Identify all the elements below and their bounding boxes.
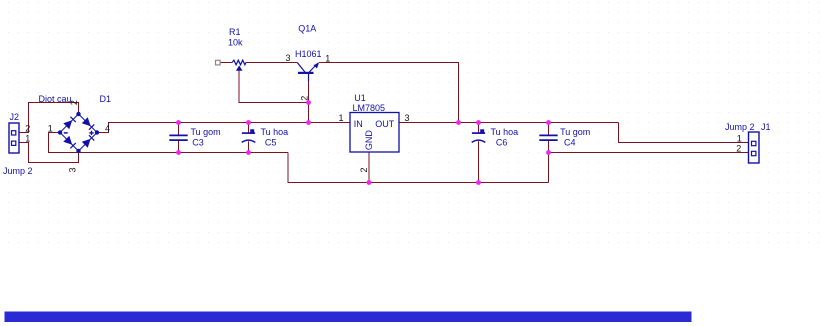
wire R1 terminal stub [220, 62, 232, 64]
wire Q1 collector down to IN rail [308, 81, 310, 123]
bridge vertex node bottom [76, 149, 80, 153]
svg-text:3: 3 [405, 113, 410, 123]
connector J1 [749, 132, 760, 163]
wire ground rail step down [288, 153, 549, 183]
svg-text:Tu gom: Tu gom [560, 127, 590, 137]
wire J2 pin2 to bridge top (net AC1) [19, 103, 79, 133]
svg-text:1: 1 [25, 133, 30, 143]
svg-text:2: 2 [736, 144, 741, 154]
svg-text:Tu gom: Tu gom [191, 127, 221, 137]
svg-text:Tu hoa: Tu hoa [491, 127, 519, 137]
junction C5 top [246, 120, 251, 125]
junction U1 GND / ground rail [367, 180, 372, 185]
svg-text:2: 2 [300, 96, 310, 101]
wire R1 wiper down and right to collector net [239, 70, 309, 103]
wire R1 to Q1 base [246, 62, 297, 64]
bridge diode lower-right [82, 135, 95, 148]
junction C5 bottom [246, 150, 251, 155]
capacitor C4 (Tu gom) plates [539, 135, 557, 140]
bridge plus mark [89, 131, 93, 135]
wire U1 OUT rail [399, 122, 619, 124]
wire C6 bottom stub to ground rail [478, 141, 480, 182]
capacitor C6 (Tu hoa) polarized plates [472, 129, 486, 142]
wire C3 bottom stub [178, 141, 180, 153]
svg-text:Jump 2: Jump 2 [3, 166, 33, 176]
junction C3 bottom [176, 150, 181, 155]
svg-text:OUT: OUT [375, 119, 395, 129]
svg-text:C5: C5 [265, 137, 277, 147]
svg-text:1: 1 [48, 123, 53, 133]
svg-text:LM7805: LM7805 [353, 103, 386, 113]
bridge diode lower-left [63, 136, 76, 149]
svg-text:GND: GND [364, 130, 374, 151]
bridge vertex node right [95, 130, 99, 134]
wire Q1 emitter to right drop [319, 63, 459, 123]
wire C5 top stub [248, 123, 250, 133]
wire bridge pin4 (DC+) to U1 IN rail [97, 123, 350, 133]
wire ground rail up to C4 bottom node [548, 153, 550, 183]
svg-text:3: 3 [286, 53, 291, 63]
svg-text:Jump 2: Jump 2 [725, 122, 755, 132]
svg-text:1: 1 [325, 54, 330, 64]
wire C4 top stub [548, 123, 550, 135]
capacitor C3 (Tu gom) plates [169, 135, 187, 140]
transistor Q1A H1061 symbol [297, 63, 319, 82]
svg-text:2: 2 [25, 123, 30, 133]
svg-text:C4: C4 [564, 137, 576, 147]
svg-text:IN: IN [354, 119, 363, 129]
resistor R1 terminal port [216, 60, 221, 65]
bridge minus mark [64, 132, 68, 134]
bottom blue progress bar [5, 312, 692, 323]
wire U1 GND pin2 to ground rail [368, 152, 370, 183]
junction C4 top [546, 120, 551, 125]
regulator U1 LM7805 box [350, 113, 399, 153]
junction C6 bottom / ground rail [476, 180, 481, 185]
svg-text:1: 1 [339, 113, 344, 123]
wire C3 top stub [178, 123, 180, 135]
svg-text:4: 4 [105, 123, 110, 133]
connector J2 [9, 123, 19, 153]
bridge vertex node left [58, 130, 62, 134]
svg-text:2: 2 [69, 100, 79, 105]
svg-text:U1: U1 [354, 93, 366, 103]
svg-text:D1: D1 [100, 94, 112, 104]
wire OUT rail step down to J1 pin1 [619, 123, 749, 143]
svg-text:3: 3 [67, 167, 77, 172]
svg-text:J1: J1 [761, 122, 771, 132]
junction R1 wiper / collector net [306, 100, 311, 105]
junction C6 top [476, 120, 481, 125]
svg-text:C3: C3 [192, 137, 204, 147]
bridge vertex node top [76, 112, 80, 116]
junction C4 bottom node [546, 150, 551, 155]
svg-text:J2: J2 [10, 112, 20, 122]
wire bridge pin1 (DC-) down-around to bottom rail [49, 133, 289, 153]
svg-text:1: 1 [737, 133, 742, 143]
wire J2 pin1 to bridge bottom (net AC2) [19, 143, 79, 163]
junction Q1 collector / IN rail [306, 120, 311, 125]
diode bridge D1 (Diot cau) body [60, 114, 97, 151]
wire C4 bottom node to J1 pin2 [549, 152, 749, 154]
svg-text:C6: C6 [496, 137, 508, 147]
bridge diode upper-left [63, 117, 76, 130]
wire C4 bottom stub [548, 141, 550, 153]
svg-text:H1061: H1061 [295, 49, 322, 59]
capacitor C5 (Tu hoa) polarized plates [242, 129, 256, 142]
svg-text:Diot cau: Diot cau [39, 94, 72, 104]
svg-text:Tu hoa: Tu hoa [261, 127, 289, 137]
junction emitter / OUT rail [456, 120, 461, 125]
svg-text:10k: 10k [228, 37, 243, 47]
wire C6 top stub [478, 123, 480, 133]
bridge diode upper-right [82, 117, 95, 130]
junction C3 top [176, 120, 181, 125]
svg-text:2: 2 [359, 167, 369, 172]
svg-text:Q1A: Q1A [298, 23, 316, 33]
resistor R1 wiper arrow [236, 65, 243, 70]
wire C5 bottom stub [248, 141, 250, 152]
resistor R1 zigzag [232, 60, 246, 65]
svg-text:R1: R1 [229, 27, 241, 37]
